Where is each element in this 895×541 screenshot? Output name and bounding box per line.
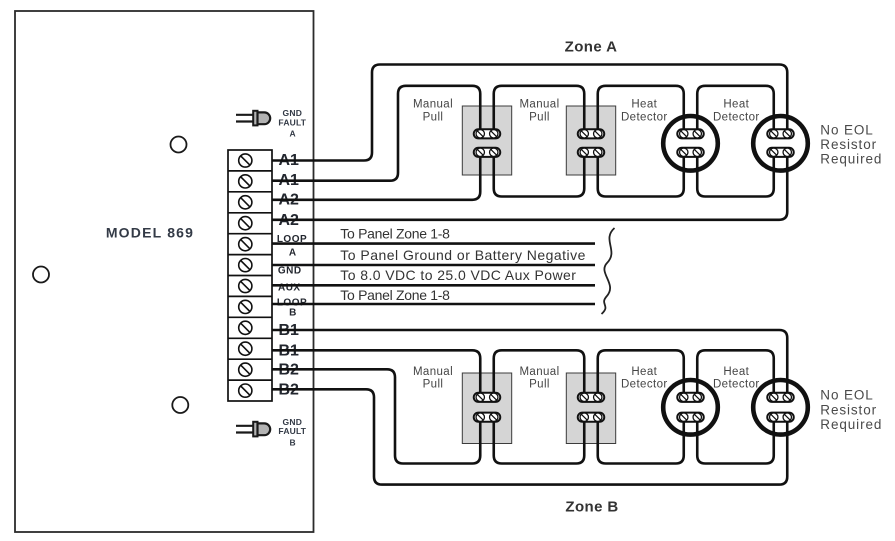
wire top link MP2 to HD1 Zone B <box>598 350 684 397</box>
svg-text:To Panel Zone 1-8: To Panel Zone 1-8 <box>340 226 450 242</box>
svg-text:No EOL: No EOL <box>820 122 873 137</box>
wire bottom link HD1 to HD2 Zone A <box>697 152 774 196</box>
mounting hole left <box>33 267 49 283</box>
svg-text:No EOL: No EOL <box>820 388 873 403</box>
wire top link HD1 to HD2 Zone B <box>697 350 774 397</box>
svg-text:Zone A: Zone A <box>565 38 618 55</box>
mounting hole bottom <box>172 397 188 413</box>
label GND FAULT B <box>278 417 306 447</box>
terminal pairs Zone B MP2 <box>578 393 605 422</box>
svg-text:Detector: Detector <box>621 112 668 124</box>
svg-text:Manual: Manual <box>519 99 559 111</box>
terminal labels LOOP A GND AUX LOOP B <box>277 234 307 319</box>
wire A1 return feed to MP1 top-left <box>272 86 480 181</box>
mounting hole top <box>171 137 187 153</box>
wire B1 out to Zone B outer top run <box>272 330 787 397</box>
wire LOOP A to panel zone 1-8 <box>272 242 595 245</box>
svg-text:GND: GND <box>278 266 302 277</box>
terminal pairs Zone B MP1 <box>474 393 501 422</box>
label MODEL 869 <box>106 225 194 241</box>
svg-text:MODEL 869: MODEL 869 <box>106 225 194 241</box>
label No EOL Resistor Required Zone A <box>820 122 882 166</box>
svg-text:Heat: Heat <box>723 99 749 111</box>
wire A2 outer bottom run Zone A <box>272 152 787 220</box>
label Heat Detector HD1 Zone A <box>621 99 668 124</box>
svg-text:B: B <box>289 308 297 319</box>
svg-text:Required: Required <box>820 152 882 167</box>
svg-text:To 8.0 VDC to 25.0 VDC Aux Pow: To 8.0 VDC to 25.0 VDC Aux Power <box>340 267 576 283</box>
svg-text:Manual: Manual <box>413 366 453 378</box>
label No EOL Resistor Required Zone B <box>820 388 882 433</box>
svg-text:Pull: Pull <box>529 379 550 391</box>
wire B1 return feed to MP1 top-left Zone B <box>272 350 480 397</box>
terminal labels A1 A1 A2 A2 <box>279 152 300 229</box>
terminal screws TB1 rows 1-12 <box>239 154 252 397</box>
wire B2 outer bottom run Zone B <box>272 389 787 484</box>
continuation squiggle <box>602 228 615 314</box>
svg-text:Heat: Heat <box>631 366 657 378</box>
wire top link MP2 to HD1 Zone A <box>598 86 684 134</box>
LED GND FAULT A <box>236 111 270 126</box>
terminal pairs Zone A HD2 <box>767 129 794 157</box>
panel enclosure MODEL 869 <box>15 11 314 532</box>
label Manual Pull MP1 Zone A <box>413 99 453 124</box>
wire A2 feed to MP1 bottom-left <box>272 152 480 200</box>
terminal pairs Zone B HD1 <box>677 393 704 422</box>
heat detector 2 Zone B body <box>753 380 808 435</box>
svg-text:Pull: Pull <box>529 112 550 124</box>
label To 8.0 VDC to 25.0 VDC Aux Power <box>340 267 576 283</box>
wire A1 out to Zone A outer top run <box>272 65 787 161</box>
heat detector 1 Zone B body <box>663 380 718 435</box>
svg-text:Pull: Pull <box>423 112 444 124</box>
svg-text:Resistor: Resistor <box>820 137 877 152</box>
label Zone A <box>565 38 618 55</box>
heat detector 1 Zone A body <box>663 116 718 171</box>
manual pull station 2 Zone B body <box>566 373 615 444</box>
terminal pairs Zone A MP2 <box>578 129 605 157</box>
wire GND to panel ground <box>272 264 595 267</box>
svg-text:To Panel Zone 1-8: To Panel Zone 1-8 <box>340 287 450 303</box>
terminal pairs Zone A HD1 <box>677 129 704 157</box>
terminal pairs Zone A MP1 <box>474 129 501 157</box>
label Heat Detector HD2 Zone B <box>713 366 760 391</box>
terminal block TB1 <box>228 150 272 401</box>
svg-text:Detector: Detector <box>621 379 668 391</box>
wire bottom link MP1 to MP2 Zone A <box>494 152 585 196</box>
svg-text:Resistor: Resistor <box>820 403 877 418</box>
label Heat Detector HD2 Zone A <box>713 99 760 124</box>
wire AUX to aux power <box>272 284 595 287</box>
label Manual Pull MP2 Zone A <box>519 99 559 124</box>
label To Panel Zone 1-8 (LOOP A) <box>340 226 450 242</box>
svg-text:A: A <box>290 128 296 138</box>
label Manual Pull MP1 Zone B <box>413 366 453 391</box>
label GND FAULT A <box>278 108 306 138</box>
wire B2 feed under-route to MP1 bottom-left Zone B <box>272 369 480 463</box>
label To Panel Zone 1-8 (LOOP B) <box>340 287 450 303</box>
wire bottom link MP2 to HD1 Zone B <box>598 417 684 463</box>
svg-text:To Panel Ground or Battery Neg: To Panel Ground or Battery Negative <box>340 247 586 263</box>
wire bottom link HD1 to HD2 Zone B <box>697 417 774 463</box>
wire bottom link MP2 to HD1 Zone A <box>598 152 684 196</box>
svg-text:FAULT: FAULT <box>278 117 306 127</box>
label Heat Detector HD1 Zone B <box>621 366 668 391</box>
svg-text:B: B <box>290 437 296 447</box>
svg-text:Manual: Manual <box>519 366 559 378</box>
wire top link MP1 to MP2 Zone A <box>494 86 585 134</box>
terminal pairs Zone B HD2 <box>767 393 794 422</box>
svg-text:Zone B: Zone B <box>565 499 618 516</box>
terminal labels B1 B1 B2 B2 <box>279 322 300 398</box>
manual pull station 1 Zone A body <box>462 106 511 175</box>
label Zone B <box>565 499 618 516</box>
LED GND FAULT B <box>236 422 270 437</box>
svg-text:Pull: Pull <box>423 379 444 391</box>
manual pull station 2 Zone A body <box>566 106 615 175</box>
wire top link MP1 to MP2 Zone B <box>494 350 585 397</box>
wire bottom link MP1 to MP2 Zone B <box>494 417 585 463</box>
manual pull station 1 Zone B body <box>462 373 511 444</box>
svg-text:A: A <box>289 247 297 258</box>
wire LOOP B to panel zone 1-8 <box>272 303 595 306</box>
label Manual Pull MP2 Zone B <box>519 366 559 391</box>
svg-text:Heat: Heat <box>723 366 749 378</box>
svg-text:Manual: Manual <box>413 99 453 111</box>
svg-text:Heat: Heat <box>631 99 657 111</box>
svg-text:Detector: Detector <box>713 379 760 391</box>
svg-text:FAULT: FAULT <box>278 426 306 436</box>
svg-text:Detector: Detector <box>713 112 760 124</box>
heat detector 2 Zone A body <box>753 116 808 171</box>
label To Panel Ground or Battery Negative <box>340 247 586 263</box>
wire top link HD1 to HD2 Zone A <box>697 86 774 134</box>
svg-text:Required: Required <box>820 417 882 432</box>
